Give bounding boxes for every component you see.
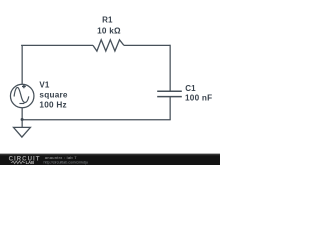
wire: top horizontal left segment	[21, 44, 93, 46]
footer bar	[0, 155, 220, 165]
svg-text:V1: V1	[39, 80, 50, 89]
V1 plus sign	[22, 85, 26, 89]
resistor R1	[93, 40, 124, 51]
footer logo zigzag	[11, 161, 25, 164]
ground	[14, 127, 31, 137]
capacitor C1 bottom plate	[157, 96, 182, 98]
wire: bottom horizontal	[21, 119, 170, 121]
svg-text:100 nF: 100 nF	[185, 93, 212, 102]
svg-text:C1: C1	[185, 84, 196, 93]
wire: V1 bottom to junction	[21, 108, 23, 120]
wire: right vertical from top corner to C1 top plate	[169, 45, 171, 91]
voltage source V1 sine glyph	[14, 87, 29, 102]
capacitor C1 top plate	[157, 90, 182, 92]
svg-text:anauntrx : lab 7: anauntrx : lab 7	[45, 155, 78, 160]
svg-text:square: square	[39, 90, 68, 99]
wire: right vertical from C1 bottom plate to bottom corner	[169, 97, 171, 120]
wire: top-left vertical from corner down to V1 top	[21, 45, 23, 84]
svg-text:10 kΩ: 10 kΩ	[97, 27, 121, 36]
junction node	[21, 118, 24, 121]
svg-text:100 Hz: 100 Hz	[39, 100, 66, 109]
svg-text:R1: R1	[102, 16, 113, 25]
voltage source V1 circle	[10, 84, 34, 108]
wire: junction to ground	[21, 120, 23, 128]
svg-text:http://circuitlab.com/cmkdju: http://circuitlab.com/cmkdju	[44, 160, 88, 164]
V1 minus sign	[19, 103, 24, 105]
svg-text:LAB: LAB	[26, 160, 35, 165]
wire: top horizontal right segment	[124, 44, 171, 46]
